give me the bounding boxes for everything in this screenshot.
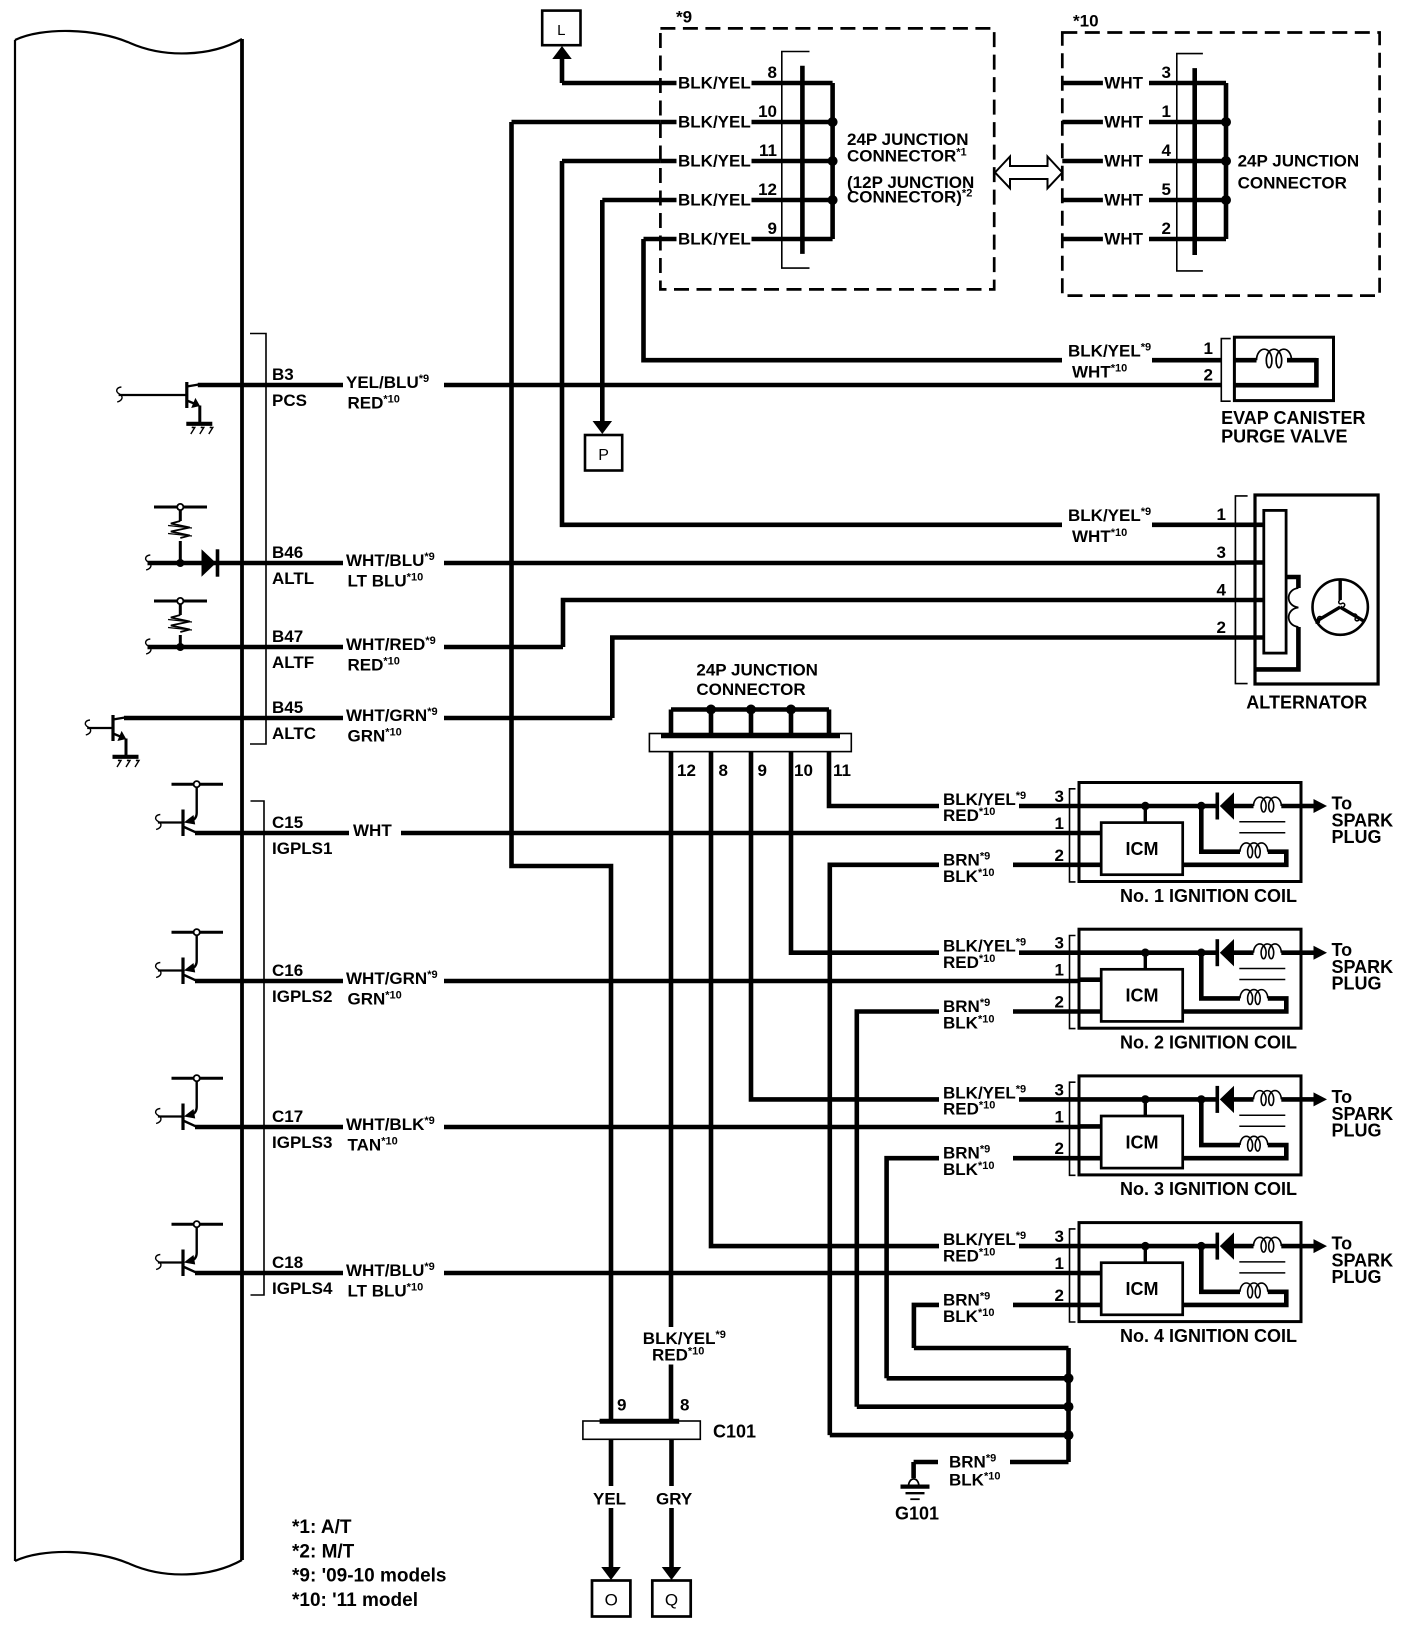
coil 2 pin3 internal rail with diode and primary winding (1079, 949, 1216, 971)
svg-text:5: 5 (1162, 180, 1171, 199)
svg-text:Q: Q (665, 1591, 678, 1610)
coil 4 pin numbers 3 1 2 (1055, 1227, 1064, 1305)
label BRN*9 BLK*10 (coil 3 pin2) (939, 1142, 1013, 1179)
svg-text:9: 9 (617, 1396, 626, 1415)
diode D4 (coil 4) (1217, 1232, 1234, 1259)
svg-text:3: 3 (1055, 787, 1064, 806)
alternator connector bracket (1235, 496, 1247, 684)
svg-text:WHT: WHT (1104, 230, 1143, 249)
*10 connector common bus (1193, 83, 1231, 239)
connector C101 (583, 1421, 700, 1439)
svg-text:1: 1 (1055, 1107, 1064, 1126)
svg-text:ALTL: ALTL (272, 569, 314, 588)
No.2 ignition coil box (1079, 929, 1301, 1028)
svg-text:CONNECTOR: CONNECTOR (696, 680, 805, 699)
coil 4 secondary winding (1183, 1246, 1287, 1305)
middle junction connector housing (649, 734, 851, 752)
riser from *9 pin10 down to C101 pin9 (BLK/YEL) (512, 122, 661, 1421)
alternator box (1255, 495, 1378, 684)
svg-text:WHT/GRN*9: WHT/GRN*9 (346, 706, 438, 725)
No.4 ignition coil box (1079, 1223, 1301, 1322)
BRN wire No.2 coil pin2 to ground bus (857, 1012, 1102, 1407)
label pin C18 / IGPLS4 (272, 1253, 333, 1298)
svg-text:WHT/RED*9: WHT/RED*9 (346, 635, 436, 654)
transistor Q2 (B45 ALTC) (NPN driver, emitter grounded) (85, 715, 242, 756)
svg-text:2: 2 (1055, 1139, 1064, 1158)
ground (hatched) at Q2 (B45 ALTC) emitter (113, 757, 140, 767)
label wire colour YEL/BLU*9 RED (343, 368, 444, 413)
coil 4 connector bracket (1070, 1229, 1076, 1322)
svg-text:PLUG: PLUG (1332, 1120, 1382, 1140)
label pin C15 / IGPLS1 (272, 813, 332, 858)
connector symbol P (585, 435, 622, 471)
svg-text:No. 3 IGNITION COIL: No. 3 IGNITION COIL (1120, 1179, 1297, 1199)
svg-text:9: 9 (758, 761, 767, 780)
svg-text:WHT: WHT (1104, 191, 1143, 210)
ICM module U2 (1101, 969, 1183, 1021)
ECM B-connector bracket (250, 334, 266, 745)
arrow to spark plug (coil 2) (1301, 946, 1327, 960)
BRN wire No.1 coil pin2 to ground bus (830, 865, 1102, 1435)
label BLK/YEL*9 RED*10 (coil 4 pin3) (939, 1229, 1026, 1266)
coil 1 primary winding (1234, 797, 1301, 812)
transistor Q5 (C17) (driver with pull-up rail) (156, 1075, 242, 1130)
svg-text:12: 12 (758, 180, 777, 199)
arrow to spark plug (coil 3) (1301, 1092, 1327, 1106)
ECM/PCM block (torn-edge module outline) (15, 31, 242, 1574)
svg-text:4: 4 (1162, 141, 1172, 160)
coil 1 secondary winding (1183, 806, 1287, 865)
diode D3 (coil 3) (1217, 1086, 1234, 1113)
arrow down into P (593, 421, 613, 434)
*10 box pin 2 wire WHT (1062, 219, 1196, 249)
svg-text:*9: '09-10 models: *9: '09-10 models (292, 1566, 446, 1587)
*9 box pin 12 wire BLK/YEL (660, 180, 802, 210)
ICM module U1 (1101, 823, 1183, 875)
BRN wire No.3 coil pin2 to ground bus (887, 1158, 1102, 1378)
alternator pin numbers 1 3 4 2 (1217, 505, 1227, 637)
wire C17 (WHT/BLK*9) from ECM pin C17 to destination (242, 1125, 1079, 1130)
coil 4 core lines (1239, 1262, 1285, 1273)
label wire colour WHT/RED*9 RED (343, 630, 444, 675)
arrow into O (601, 1567, 621, 1580)
svg-text:C101: C101 (713, 1422, 756, 1442)
label 24P JUNCTION CONNECTOR (middle) (696, 661, 818, 700)
svg-text:C16: C16 (272, 961, 303, 980)
svg-text:PLUG: PLUG (1332, 974, 1382, 994)
dashed option box *9 (660, 28, 994, 289)
label pin C17 / IGPLS3 (272, 1107, 332, 1152)
label 24P JUNCTION CONNECTOR*1 (12P JUNCTION CONNECTOR)*2 (847, 130, 974, 207)
coil 2 pin numbers 3 1 2 (1055, 934, 1064, 1012)
coil 2 connector bracket (1070, 936, 1076, 1029)
label wire colour WHT/BLU*9 LT BLU (343, 1256, 444, 1301)
svg-text:EVAP CANISTER: EVAP CANISTER (1221, 408, 1365, 428)
svg-text:2: 2 (1162, 219, 1171, 238)
wire B47 (WHT/RED*9) from ECM pin B47 to destination (242, 645, 563, 650)
label BRN*9 BLK*10 (ground wire) (938, 1448, 1010, 1490)
svg-text:*2: M/T: *2: M/T (292, 1542, 355, 1563)
wire C16 (WHT/GRN*9) from ECM pin C16 to destination (242, 979, 1079, 984)
wire junction pin10 down/right to No.2 coil pin3 (791, 752, 1079, 953)
svg-text:8: 8 (680, 1396, 689, 1415)
wire junction pin11 down/right to No.1 coil pin3 (829, 752, 1079, 806)
svg-text:B45: B45 (272, 698, 303, 717)
svg-text:*10: '11 model: *10: '11 model (292, 1590, 418, 1611)
svg-text:BLK/YEL: BLK/YEL (678, 230, 751, 249)
svg-text:C18: C18 (272, 1253, 303, 1272)
svg-text:3: 3 (1055, 1080, 1064, 1099)
*9 box pin 11 wire BLK/YEL (660, 141, 802, 171)
svg-text:CONNECTOR: CONNECTOR (1238, 174, 1347, 193)
coil 3 pin3 internal rail with diode and primary winding (1079, 1095, 1216, 1117)
arrow into Q (662, 1567, 682, 1580)
label pin B46 / ALTL (272, 543, 314, 588)
svg-text:1: 1 (1204, 339, 1213, 358)
svg-text:PLUG: PLUG (1332, 827, 1382, 847)
svg-text:CONNECTOR*1: CONNECTOR*1 (847, 147, 967, 166)
alternator field winding (rotor coil) (1257, 577, 1299, 669)
ICM module U3 (1101, 1116, 1183, 1168)
svg-text:1: 1 (1055, 1254, 1064, 1273)
svg-text:TAN*10: TAN*10 (348, 1136, 398, 1155)
wire junction pin12 down to C101 pin8 (669, 752, 674, 1421)
transistor Q3 (C15) (driver with pull-up rail) (156, 781, 242, 836)
svg-text:1: 1 (1217, 505, 1226, 524)
svg-text:BLK/YEL*9: BLK/YEL*9 (1068, 506, 1151, 525)
svg-text:2: 2 (1204, 366, 1213, 385)
No.3 ignition coil box (1079, 1076, 1301, 1175)
EVAP connector bracket (1221, 339, 1230, 402)
svg-text:3: 3 (1162, 63, 1171, 82)
riser from *9 pin9 to EVAP valve pin1 (644, 239, 1222, 360)
riser from *9 pin11 to alternator pin1 (562, 161, 1236, 525)
svg-text:11: 11 (759, 141, 777, 160)
label pin B3 / PCS (272, 365, 307, 410)
svg-text:O: O (605, 1591, 618, 1610)
label 24P JUNCTION CONNECTOR (*10) (1238, 152, 1360, 193)
label To SPARK PLUG (coil 1) (1332, 794, 1394, 848)
label BRN*9 BLK*10 (coil 2 pin2) (939, 996, 1013, 1033)
*10 box pin 4 wire WHT (1062, 141, 1196, 171)
legend notes (292, 1517, 446, 1611)
svg-text:ALTERNATOR: ALTERNATOR (1246, 693, 1367, 713)
coil 1 pin3 internal rail with diode and primary winding (1079, 802, 1216, 824)
middle junction pin numbers 12 8 9 10 11 (677, 761, 851, 780)
coil 1 pin numbers 3 1 2 (1055, 787, 1064, 865)
svg-text:*1: A/T: *1: A/T (292, 1517, 352, 1538)
svg-text:ALTC: ALTC (272, 724, 316, 743)
svg-text:RED*10: RED*10 (348, 394, 400, 413)
svg-text:LT BLU*10: LT BLU*10 (348, 1282, 424, 1301)
ground G101 symbol (901, 1479, 930, 1499)
svg-text:B46: B46 (272, 543, 303, 562)
svg-text:GRN*10: GRN*10 (348, 727, 402, 746)
svg-text:1: 1 (1162, 102, 1171, 121)
wire C101 pin8 down to Q (669, 1439, 674, 1569)
alternator stator (3-phase windings) (1313, 579, 1368, 634)
svg-text:24P JUNCTION: 24P JUNCTION (1238, 152, 1360, 171)
connector symbol O (592, 1581, 630, 1617)
label wire colour WHT/GRN*9 GRN (343, 964, 444, 1009)
svg-text:ICM: ICM (1126, 839, 1159, 859)
svg-text:BLK/YEL: BLK/YEL (678, 191, 751, 210)
svg-text:10: 10 (758, 102, 777, 121)
coil 1 pin1 wire into ICM (1079, 831, 1101, 836)
transistor Q6 (C18) (driver with pull-up rail) (156, 1221, 242, 1276)
label YEL (589, 1486, 635, 1509)
label wire colour WHT/BLU*9 LT BLU (343, 546, 444, 591)
svg-text:BLK/YEL: BLK/YEL (678, 113, 751, 132)
svg-text:IGPLS2: IGPLS2 (272, 987, 332, 1006)
wire C18 (WHT/BLU*9) from ECM pin C18 to destination (242, 1271, 1079, 1276)
coil 3 pin1 wire into ICM (1079, 1124, 1101, 1129)
label BLK/YEL*9 RED*10 (coil 3 pin3) (939, 1082, 1026, 1119)
wire B46 (WHT/BLU*9) from ECM pin B46 to destination (242, 561, 1236, 566)
svg-text:24P JUNCTION: 24P JUNCTION (696, 661, 818, 680)
*10 box pin 3 wire WHT (1062, 63, 1196, 93)
EVAP solenoid coil winding (1234, 349, 1316, 385)
double-headed arrow between *9 and *10 boxes (995, 157, 1062, 189)
coil 2 secondary winding (1183, 953, 1287, 1012)
label BRN*9 BLK*10 (coil 4 pin2) (939, 1289, 1013, 1326)
coil 2 pin1 wire into ICM (1079, 977, 1101, 982)
svg-text:BLK/YEL: BLK/YEL (678, 74, 751, 93)
label BLK/YEL*9 RED*10 (C101 pin8 wire) (637, 1327, 727, 1365)
svg-text:12: 12 (677, 761, 696, 780)
*9 box pin 9 wire BLK/YEL (660, 219, 802, 249)
label pin B45 / ALTC (272, 698, 316, 743)
svg-text:ICM: ICM (1126, 1132, 1159, 1152)
svg-text:CONNECTOR)*2: CONNECTOR)*2 (847, 188, 972, 207)
24P junction connector body (*9 box) (782, 52, 810, 269)
pull-up resistor R2 (ALTF) (154, 598, 207, 647)
ground (hatched) at Q1 (B3 PCS) emitter (186, 424, 213, 434)
svg-text:BLK/YEL: BLK/YEL (678, 152, 751, 171)
label BRN*9 BLK*10 (coil 1 pin2) (939, 849, 1013, 886)
label EVAP CANISTER PURGE VALVE (1221, 408, 1365, 447)
transistor Q4 (C16) (driver with pull-up rail) (156, 929, 242, 984)
alternator internal connector (1236, 510, 1286, 653)
svg-text:C17: C17 (272, 1107, 303, 1126)
svg-text:ICM: ICM (1126, 986, 1159, 1006)
svg-text:10: 10 (794, 761, 813, 780)
wire junction pin9 down/right to No.3 coil pin3 (751, 752, 1079, 1100)
label To SPARK PLUG (coil 2) (1332, 940, 1394, 994)
diode D2 (coil 2) (1217, 939, 1234, 966)
svg-text:PCS: PCS (272, 391, 307, 410)
svg-text:3: 3 (1055, 1227, 1064, 1246)
C101 pin numbers 9 8 (617, 1396, 689, 1415)
svg-text:ICM: ICM (1126, 1279, 1159, 1299)
svg-text:11: 11 (833, 761, 851, 780)
svg-text:WHT: WHT (353, 821, 392, 840)
svg-text:B47: B47 (272, 627, 303, 646)
svg-text:PURGE VALVE: PURGE VALVE (1221, 427, 1347, 447)
label pin C16 / IGPLS2 (272, 961, 332, 1006)
label BLK/YEL*9 RED*10 (coil 2 pin3) (939, 935, 1026, 972)
coil 4 pin3 internal rail with diode and primary winding (1079, 1242, 1216, 1264)
EVAP canister purge valve box (1234, 337, 1333, 400)
svg-text:4: 4 (1217, 581, 1227, 600)
label wire colour WHT/BLK*9 TAN (343, 1110, 444, 1155)
svg-text:B3: B3 (272, 365, 294, 384)
svg-text:PLUG: PLUG (1332, 1267, 1382, 1287)
coil 3 connector bracket (1070, 1082, 1076, 1175)
arrow to spark plug (coil 1) (1301, 799, 1327, 813)
svg-text:3: 3 (1055, 934, 1064, 953)
coil 4 pin1 wire into ICM (1079, 1271, 1101, 1276)
wire C101 pin9 down to O (609, 1439, 614, 1569)
svg-text:No. 2 IGNITION COIL: No. 2 IGNITION COIL (1120, 1033, 1297, 1053)
junction dot R1 (ALTL) on wire (148, 561, 243, 566)
pull-up resistor R1 (ALTL) (154, 504, 207, 563)
svg-text:2: 2 (1055, 993, 1064, 1012)
wire B3 (YEL/BLU*9) from ECM pin B3 to destination (242, 383, 1221, 388)
svg-text:2: 2 (1055, 1286, 1064, 1305)
svg-text:2: 2 (1055, 846, 1064, 865)
label To SPARK PLUG (coil 4) (1332, 1234, 1394, 1288)
wire junction pin8 down/right to No.4 coil pin3 (711, 752, 1079, 1247)
svg-text:8: 8 (719, 761, 728, 780)
svg-text:WHT: WHT (1104, 113, 1143, 132)
label GRY (652, 1486, 701, 1509)
junction dot R2 (ALTF) on wire (148, 645, 243, 650)
coil 3 pin numbers 3 1 2 (1055, 1080, 1064, 1158)
riser from *9 pin12 down to connector P (602, 200, 660, 422)
svg-text:BLK/YEL*9: BLK/YEL*9 (1068, 342, 1151, 361)
label pin B47 / ALTF (272, 627, 314, 672)
svg-text:3: 3 (1217, 543, 1226, 562)
label To SPARK PLUG (coil 3) (1332, 1087, 1394, 1141)
svg-text:WHT: WHT (1104, 74, 1143, 93)
coil 3 secondary winding (1183, 1099, 1287, 1158)
ICM module U4 (1101, 1263, 1183, 1315)
svg-text:1: 1 (1055, 814, 1064, 833)
svg-text:C15: C15 (272, 813, 303, 832)
svg-text:WHT/BLK*9: WHT/BLK*9 (346, 1115, 435, 1134)
connector symbol Q (652, 1581, 690, 1617)
*9 connector common bus (800, 83, 838, 239)
svg-text:8: 8 (768, 63, 777, 82)
svg-text:YEL: YEL (593, 1490, 626, 1509)
svg-text:9: 9 (768, 219, 777, 238)
BRN ground bus collector (830, 1348, 1074, 1478)
EVAP pin numbers 1 2 (1204, 339, 1213, 385)
coil 3 primary winding (1234, 1091, 1301, 1106)
svg-text:WHT/BLU*9: WHT/BLU*9 (346, 551, 435, 570)
diode D1 on ALTL line (202, 549, 218, 576)
svg-text:IGPLS4: IGPLS4 (272, 1279, 333, 1298)
arrow up into L (552, 46, 572, 83)
svg-text:L: L (557, 22, 565, 39)
label wire colour WHT/GRN*9 GRN (343, 701, 444, 746)
svg-text:G101: G101 (895, 1504, 939, 1524)
connector symbol L (to other sheet) (542, 11, 580, 46)
svg-text:WHT/GRN*9: WHT/GRN*9 (346, 969, 438, 988)
label BLK/YEL*9 RED*10 (coil 1 pin3) (939, 789, 1026, 826)
*10 box pin 5 wire WHT (1062, 180, 1196, 210)
No.1 ignition coil box (1079, 783, 1301, 882)
BRN wire No.4 coil pin2 to ground bus (914, 1305, 1102, 1348)
riser B47 wire up to alternator pin4 (563, 600, 1236, 647)
svg-text:IGPLS3: IGPLS3 (272, 1133, 332, 1152)
*9 box pin 8 wire BLK/YEL (660, 63, 802, 93)
svg-text:LT BLU*10: LT BLU*10 (348, 572, 424, 591)
svg-text:1: 1 (1055, 961, 1064, 980)
riser B45 wire up to alternator pin2 (612, 638, 1236, 719)
coil 1 core lines (1239, 822, 1285, 833)
*9 box pin 10 wire BLK/YEL (660, 102, 802, 132)
svg-text:GRY: GRY (656, 1490, 693, 1509)
ECM C-connector bracket (251, 801, 265, 1295)
svg-text:WHT/BLU*9: WHT/BLU*9 (346, 1261, 435, 1280)
coil 2 core lines (1239, 969, 1285, 980)
svg-text:No. 1 IGNITION COIL: No. 1 IGNITION COIL (1120, 886, 1297, 906)
middle junction connector bus and pins (671, 705, 829, 737)
svg-text:RED*10: RED*10 (348, 656, 400, 675)
svg-text:*10: *10 (1073, 12, 1099, 31)
label wire colour WHT (349, 817, 401, 840)
svg-text:ALTF: ALTF (272, 653, 314, 672)
ECM right wall (240, 39, 244, 1560)
svg-text:2: 2 (1217, 618, 1226, 637)
*10 box pin 1 wire WHT (1062, 102, 1196, 132)
svg-text:No. 4 IGNITION COIL: No. 4 IGNITION COIL (1120, 1326, 1297, 1346)
svg-text:P: P (598, 447, 609, 464)
label BLK/YEL*9 WHT*10 (EVAP wire) (1062, 339, 1152, 382)
24P junction connector body (*10 box) (1177, 54, 1203, 271)
coil 3 core lines (1239, 1115, 1285, 1126)
arrow to spark plug (coil 4) (1301, 1239, 1327, 1253)
svg-text:YEL/BLU*9: YEL/BLU*9 (346, 373, 429, 392)
wire B45 (WHT/GRN*9) from ECM pin B45 to destination (242, 716, 612, 721)
coil 2 primary winding (1234, 944, 1301, 959)
svg-text:WHT: WHT (1104, 152, 1143, 171)
wire C15 (WHT) from ECM pin C15 to destination (242, 831, 1079, 836)
transistor Q1 (B3 PCS) (NPN driver, emitter grounded) (117, 382, 242, 423)
diode D1 (coil 1) (1217, 792, 1234, 819)
wire *9 pin8 to L (562, 81, 660, 86)
svg-text:IGPLS1: IGPLS1 (272, 839, 332, 858)
dashed option box *10 (1062, 33, 1379, 296)
svg-text:*9: *9 (676, 8, 692, 27)
svg-text:GRN*10: GRN*10 (348, 990, 402, 1009)
coil 1 connector bracket (1070, 789, 1076, 882)
label BLK/YEL*9 WHT*10 (alternator wire) (1062, 504, 1152, 547)
coil 4 primary winding (1234, 1237, 1301, 1252)
